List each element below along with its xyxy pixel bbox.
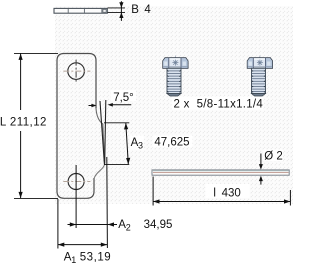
svg-text:L 211,12: L 211,12 [0, 117, 47, 129]
svg-text:2: 2 [126, 223, 131, 233]
bottom hole [63, 174, 90, 190]
svg-text:3: 3 [138, 141, 143, 151]
dimension 7,5 degrees [89, 90, 137, 107]
svg-text:l: l [213, 188, 216, 200]
bolt 1 [163, 56, 188, 97]
svg-text:1: 1 [71, 255, 76, 265]
svg-text:4: 4 [144, 4, 151, 16]
plate right-side arc to bent tab [96, 108, 105, 164]
bolt 2 [247, 56, 272, 97]
rod side view [152, 170, 289, 175]
plate tab S-curve [94, 164, 104, 178]
svg-text:430: 430 [222, 188, 241, 200]
svg-text:2 x 5/8-11x1.1/4: 2 x 5/8-11x1.1/4 [174, 98, 264, 110]
svg-text:47,625: 47,625 [154, 137, 189, 149]
top hole [63, 60, 90, 84]
svg-text:53,19: 53,19 [80, 251, 112, 263]
svg-text:34,95: 34,95 [144, 219, 173, 231]
dimension A1 53,19 [58, 199, 111, 265]
dimension A3 47,625 [104, 123, 192, 165]
dimension l 430 [153, 177, 290, 206]
hatched drawing background [55, 6, 293, 204]
plate side view (top bar) [54, 8, 107, 13]
bend line right [105, 100, 106, 164]
extension line from bottom hole centre down [75, 165, 77, 228]
extension line from tab edge down [106, 157, 109, 248]
svg-text:Ø 2: Ø 2 [264, 150, 283, 162]
svg-text:B: B [131, 4, 139, 16]
svg-text:7,5°: 7,5° [113, 92, 134, 104]
bend line left [100, 101, 104, 164]
plate front view outline [57, 54, 96, 199]
dimension B 4 [108, 1, 152, 21]
bolt label [172, 97, 264, 111]
dimension diameter 2 [259, 150, 283, 185]
dimension L 211,12 [0, 53, 58, 198]
dimension A2 34,95 [68, 219, 173, 233]
